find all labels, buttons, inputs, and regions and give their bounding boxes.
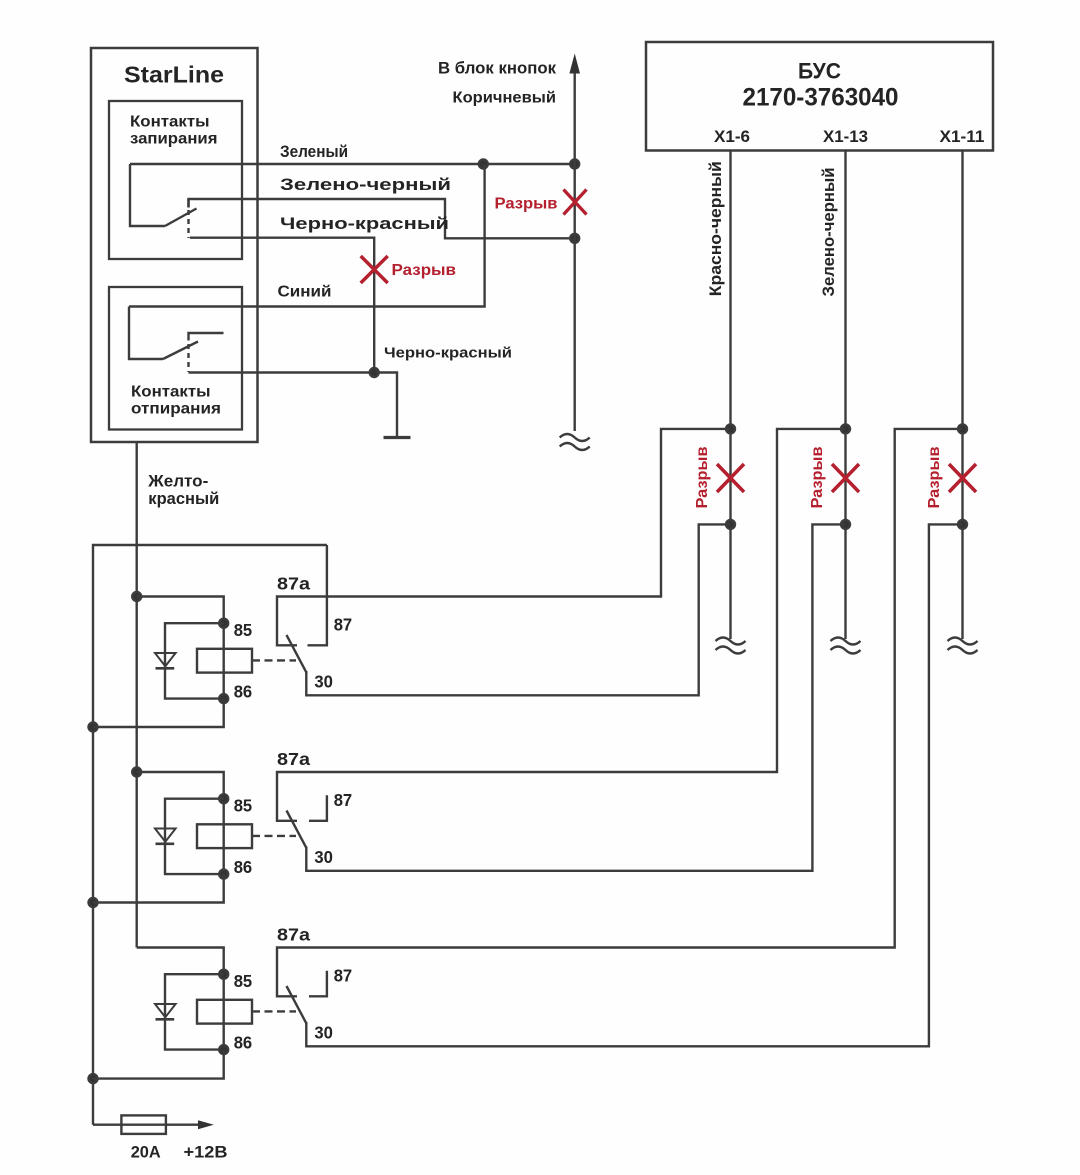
svg-text:87а: 87а bbox=[277, 925, 310, 945]
svg-text:86: 86 bbox=[234, 857, 253, 877]
node +12V relay1 bbox=[89, 723, 98, 732]
svg-text:Контакты: Контакты bbox=[130, 114, 210, 131]
relay2 87a terminal and wire to X1-13 bbox=[277, 429, 846, 821]
relay1 30 wire to X1-6 bbox=[306, 524, 730, 695]
node bus relay2 bbox=[132, 768, 141, 777]
relay2 coil top wire bbox=[137, 772, 224, 799]
relay1 diode bbox=[155, 653, 176, 666]
relay2 30 wire to X1-13 bbox=[306, 524, 845, 870]
relay3 coil bottom wire bbox=[93, 1050, 224, 1079]
break X on Черно-красный bbox=[361, 256, 388, 283]
svg-text:X1-13: X1-13 bbox=[823, 127, 868, 146]
svg-text:85: 85 bbox=[234, 796, 253, 816]
relay1 switch arm bbox=[287, 635, 307, 672]
relay1 node 85 bbox=[219, 619, 228, 628]
relay2 87 stub terminal bbox=[309, 795, 327, 821]
svg-text:20A: 20A bbox=[131, 1142, 161, 1161]
wire Черно-красный upper bbox=[190, 238, 374, 373]
relay2 coil bottom wire bbox=[93, 874, 224, 902]
svg-text:Черно-красный: Черно-красный bbox=[280, 214, 449, 233]
relay3 coil bbox=[197, 1000, 252, 1024]
node +12V relay3 bbox=[89, 1074, 98, 1083]
column3 break X bbox=[949, 464, 976, 492]
relay3 actuator dashes bbox=[252, 1010, 296, 1012]
ground bbox=[384, 436, 411, 439]
column2 squiggle bbox=[831, 638, 861, 654]
wire Черно-красный lower to ground bbox=[189, 373, 398, 437]
lock switch upper contact tip bbox=[187, 199, 189, 208]
svg-text:85: 85 bbox=[234, 620, 253, 640]
relay1 coil bbox=[197, 649, 252, 673]
svg-text:красный: красный bbox=[148, 490, 219, 508]
relay1 node 86 bbox=[219, 694, 228, 703]
svg-text:Синий: Синий bbox=[278, 284, 332, 301]
unlock contacts box bbox=[109, 287, 242, 430]
relay1 actuator dashes bbox=[252, 659, 296, 661]
svg-text:2170-3763040: 2170-3763040 bbox=[743, 84, 899, 112]
svg-text:Разрыв: Разрыв bbox=[926, 446, 943, 508]
column2 node upper bbox=[841, 424, 850, 433]
relay2 bbox=[93, 429, 846, 903]
relay1 87a terminal and wire to X1-6 bbox=[277, 429, 731, 645]
wire Синий bbox=[129, 165, 485, 307]
relay3 switch arm bbox=[287, 986, 307, 1023]
node +12V relay2 bbox=[89, 898, 98, 907]
unlock switch arm bbox=[163, 342, 198, 360]
svg-text:Черно-красный: Черно-красный bbox=[384, 346, 512, 362]
pin X1-6 wire bbox=[729, 151, 731, 640]
lock contacts box bbox=[109, 101, 242, 259]
svg-text:86: 86 bbox=[234, 1033, 253, 1053]
node bus relay1 bbox=[132, 592, 141, 601]
relay1 coil bus bbox=[222, 623, 224, 698]
svg-text:87а: 87а bbox=[277, 574, 310, 594]
relay2 coil bbox=[197, 824, 252, 848]
+12V bus bbox=[93, 545, 327, 1125]
svg-text:отпирания: отпирания bbox=[131, 401, 221, 418]
svg-text:30: 30 bbox=[314, 847, 333, 867]
relay3 node 86 bbox=[219, 1045, 228, 1054]
lock switch common loop bbox=[130, 164, 165, 226]
break X on Коричневый bbox=[564, 190, 587, 215]
relay3 diode bbox=[155, 1004, 176, 1017]
Коричневый arrow up bbox=[569, 54, 580, 74]
column1 node lower bbox=[726, 520, 735, 529]
node on Зеленый at Синий riser bbox=[479, 160, 488, 169]
svg-text:85: 85 bbox=[234, 971, 253, 991]
relay3 bbox=[93, 429, 963, 1079]
relay1 coil bottom wire bbox=[93, 699, 224, 727]
svg-text:X1-6: X1-6 bbox=[714, 127, 750, 146]
pin X1-13 wire bbox=[844, 151, 846, 640]
wire Коричневый vertical bbox=[574, 71, 576, 431]
node Зеленый-Коричневый bbox=[570, 160, 579, 169]
svg-text:Зелено-черный: Зелено-черный bbox=[280, 175, 451, 194]
StarLine unit box bbox=[91, 48, 258, 442]
wire Зеленый bbox=[130, 163, 575, 165]
relay2 switch arm bbox=[287, 811, 307, 848]
relay3 node 85 bbox=[219, 970, 228, 979]
column3 node upper bbox=[958, 424, 967, 433]
column1 squiggle bbox=[716, 638, 746, 654]
break squiggle Коричневый bbox=[560, 434, 590, 450]
svg-text:Зеленый: Зеленый bbox=[280, 142, 348, 161]
svg-text:БУС: БУС bbox=[798, 59, 841, 84]
relay3 87 stub terminal bbox=[309, 971, 327, 997]
svg-text:StarLine: StarLine bbox=[124, 62, 224, 88]
svg-text:Красно-черный: Красно-черный bbox=[706, 161, 725, 296]
svg-text:Контакты: Контакты bbox=[131, 384, 211, 401]
wire Желто-красный bus bbox=[135, 442, 137, 948]
БУС unit box bbox=[646, 42, 993, 151]
lock switch lower contact dashed bbox=[187, 210, 189, 238]
pin X1-11 wire bbox=[961, 151, 963, 640]
relay1 bbox=[93, 429, 731, 727]
svg-text:87а: 87а bbox=[277, 749, 310, 769]
wire Зелено-черный bbox=[189, 199, 575, 238]
relay1 diode loop bbox=[165, 623, 224, 698]
svg-text:Коричневый: Коричневый bbox=[453, 90, 557, 107]
column2 node lower bbox=[841, 520, 850, 529]
lock switch arm bbox=[165, 209, 197, 227]
relay3 coil bus bbox=[222, 974, 224, 1049]
svg-text:запирания: запирания bbox=[130, 131, 218, 148]
svg-text:87: 87 bbox=[334, 790, 353, 810]
svg-text:86: 86 bbox=[234, 682, 253, 702]
svg-text:X1-11: X1-11 bbox=[940, 127, 985, 146]
relay2 actuator dashes bbox=[252, 835, 296, 837]
unlock switch lower contact dashed bbox=[187, 344, 189, 372]
relay1 coil top wire bbox=[137, 597, 224, 624]
svg-text:В блок кнопок: В блок кнопок bbox=[438, 59, 556, 78]
svg-text:Разрыв: Разрыв bbox=[495, 196, 558, 213]
relay2 node 86 bbox=[219, 870, 228, 879]
relay3 diode loop bbox=[165, 974, 224, 1049]
column3 node lower bbox=[958, 520, 967, 529]
svg-text:30: 30 bbox=[314, 1023, 333, 1043]
relay1 87 terminal to +12V bbox=[308, 545, 327, 645]
relay2 diode bbox=[155, 829, 176, 842]
svg-text:Разрыв: Разрыв bbox=[694, 446, 711, 508]
svg-text:Разрыв: Разрыв bbox=[809, 446, 826, 508]
unlock switch common loop bbox=[129, 307, 163, 360]
column1 break X bbox=[717, 464, 744, 492]
svg-text:Зелено-черный: Зелено-черный bbox=[819, 168, 838, 297]
relay2 node 85 bbox=[219, 794, 228, 803]
svg-text:87: 87 bbox=[334, 615, 353, 635]
svg-text:30: 30 bbox=[314, 672, 333, 692]
svg-text:+12В: +12В bbox=[184, 1142, 228, 1161]
relay3 30 wire to X1-11 bbox=[306, 524, 962, 1046]
column3 squiggle bbox=[948, 638, 978, 654]
node Черно-красный junction bbox=[370, 368, 379, 377]
node Зелено-черный-Коричневый bbox=[570, 234, 579, 243]
relay3 87a terminal and wire to X1-11 bbox=[277, 429, 963, 996]
svg-text:Разрыв: Разрыв bbox=[392, 262, 457, 279]
relay2 diode loop bbox=[165, 799, 224, 874]
svg-text:87: 87 bbox=[334, 966, 353, 986]
relay2 coil bus bbox=[222, 799, 224, 874]
column1 node upper bbox=[726, 424, 735, 433]
relay3 coil top wire bbox=[137, 948, 224, 975]
unlock switch upper stub contact bbox=[189, 333, 224, 341]
fuse 20A bbox=[93, 1123, 199, 1125]
column2 break X bbox=[832, 464, 859, 492]
svg-text:Желто-: Желто- bbox=[147, 473, 208, 491]
